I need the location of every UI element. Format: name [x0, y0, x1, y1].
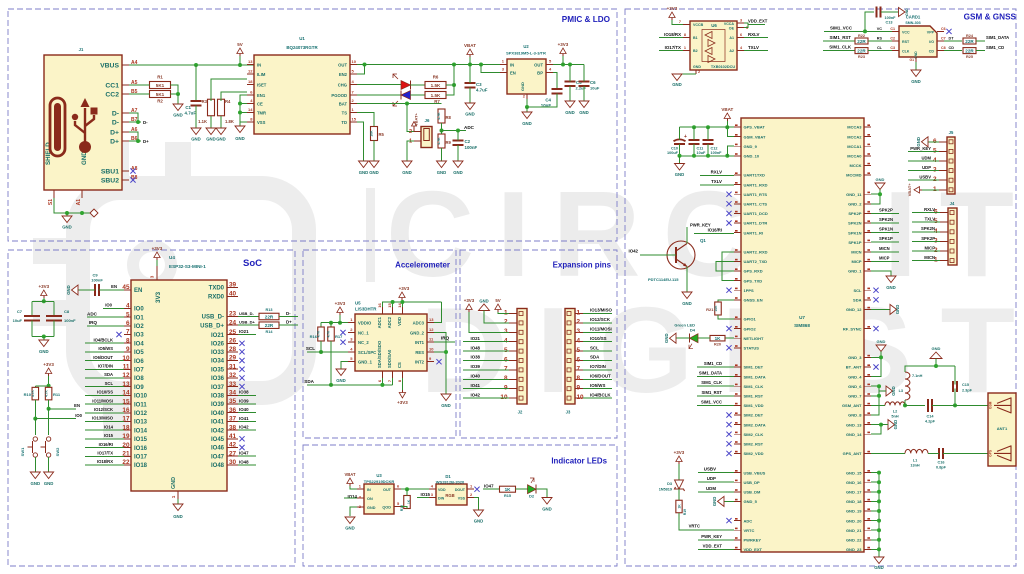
- svg-text:GND: GND: [895, 305, 900, 315]
- svg-text:U5: U5: [355, 301, 361, 306]
- GSM module U7 SIM868: [741, 118, 864, 552]
- wire VBAT to GSM_VBAT: [727, 121, 734, 137]
- diode D3 1N5819: [659, 480, 685, 492]
- net label VC: [877, 27, 883, 31]
- ground: [675, 164, 685, 178]
- svg-text:GND_11: GND_11: [846, 192, 862, 197]
- switch SW1: [20, 437, 38, 457]
- svg-text:IO42: IO42: [628, 249, 638, 254]
- resistor R16: [310, 327, 325, 341]
- net label MICP at J4: [925, 245, 936, 250]
- svg-text:+: +: [684, 134, 687, 140]
- junction: [879, 355, 883, 359]
- no-connect: [873, 326, 878, 331]
- no-connect: [239, 367, 244, 372]
- svg-text:9: 9: [504, 385, 508, 392]
- svg-text:22R: 22R: [857, 49, 866, 54]
- wire GSM_ANT: [871, 404, 885, 406]
- LED D4 green: [674, 322, 698, 348]
- svg-text:1.1K: 1.1K: [198, 119, 207, 124]
- J1 bottom pins S1 A1: [48, 190, 82, 205]
- svg-text:100nF: 100nF: [91, 278, 103, 283]
- svg-text:SCL: SCL: [854, 288, 863, 293]
- svg-text:ADC: ADC: [744, 518, 753, 523]
- svg-text:USB_DP: USB_DP: [744, 480, 761, 485]
- svg-text:4: 4: [504, 338, 508, 345]
- svg-text:GND: GND: [891, 386, 896, 396]
- net label IO10/SS at U4: [97, 390, 113, 395]
- resistor R19: [676, 500, 687, 515]
- wire 3v3 to D3: [678, 464, 680, 480]
- net label IO47: [239, 451, 249, 456]
- svg-text:C8: C8: [941, 46, 946, 50]
- svg-text:R13: R13: [266, 308, 273, 312]
- svg-text:SIM2_DATA: SIM2_DATA: [744, 422, 766, 427]
- wire: [912, 231, 940, 233]
- svg-text:SW1: SW1: [20, 447, 25, 456]
- wire: [411, 94, 426, 96]
- junction: [136, 139, 140, 143]
- net label IO17/TX: [665, 45, 681, 50]
- wire: [469, 57, 471, 65]
- svg-text:IO17: IO17: [134, 455, 148, 461]
- svg-text:IO21: IO21: [239, 329, 249, 334]
- load switch U3 TPS22919DCKR: [357, 473, 401, 514]
- svg-text:ESP32-S3-MINI-1: ESP32-S3-MINI-1: [169, 264, 206, 269]
- svg-text:IO41: IO41: [211, 420, 225, 426]
- wire: [698, 539, 734, 541]
- svg-text:5K1: 5K1: [156, 83, 165, 88]
- svg-text:D+: D+: [110, 138, 119, 145]
- mounting diamond: [90, 209, 98, 217]
- no-connect: [239, 436, 244, 441]
- svg-text:EN: EN: [111, 284, 117, 289]
- svg-text:R17: R17: [335, 334, 343, 339]
- wire: [583, 86, 585, 101]
- wire R17 to SDA: [330, 341, 332, 385]
- wire Q1 emitter: [686, 267, 688, 293]
- wire: [171, 85, 179, 94]
- wire: [401, 378, 403, 390]
- net label IO10/SS at J3: [590, 336, 607, 341]
- ground: [336, 369, 346, 383]
- ground: [44, 472, 54, 486]
- svg-text:VBUS: VBUS: [100, 62, 119, 69]
- svg-text:GND: GND: [437, 170, 447, 175]
- resistor R17: [327, 327, 343, 341]
- no-connect: [726, 288, 731, 293]
- net label USBV at J5: [919, 175, 931, 180]
- svg-text:TXLV: TXLV: [711, 179, 722, 184]
- svg-text:GND_9: GND_9: [744, 144, 758, 149]
- svg-text:3: 3: [150, 275, 155, 278]
- net label ADC: [464, 125, 475, 130]
- net label UDP: [707, 476, 716, 481]
- resistor R5: [370, 127, 385, 141]
- junction: [238, 102, 242, 106]
- wire EN1-VSS tie: [240, 95, 247, 122]
- svg-text:NC_1: NC_1: [358, 330, 369, 335]
- net label IO6/DOUT at J3: [590, 374, 611, 379]
- wire U6 gnd: [677, 73, 696, 75]
- svg-text:IO2: IO2: [134, 324, 144, 330]
- wire C13: [865, 12, 874, 31]
- svg-text:MICP: MICP: [852, 259, 862, 264]
- svg-text:GND: GND: [712, 497, 717, 507]
- net label EN at C9: [111, 284, 117, 289]
- ground: [30, 472, 40, 486]
- svg-text:Indicator LEDs: Indicator LEDs: [551, 457, 607, 466]
- junction: [338, 321, 342, 325]
- wire R6R7 to VBAT: [446, 65, 454, 96]
- wire EN to SW2: [49, 408, 76, 410]
- no-connect: [116, 332, 121, 337]
- svg-text:UART1_RTS: UART1_RTS: [744, 192, 768, 197]
- wire: [85, 368, 124, 370]
- svg-text:13nH: 13nH: [910, 463, 920, 467]
- no-connect: [239, 445, 244, 450]
- svg-text:B1: B1: [693, 36, 698, 40]
- wire: [697, 404, 734, 406]
- svg-text:IO38: IO38: [211, 394, 225, 400]
- ground: [474, 510, 484, 524]
- no-connect: [726, 412, 731, 417]
- svg-text:C4: C4: [545, 98, 551, 103]
- svg-text:ISET: ISET: [257, 82, 267, 87]
- svg-text:GND: GND: [905, 8, 909, 16]
- svg-text:GND: GND: [62, 225, 72, 230]
- svg-text:R19: R19: [683, 509, 687, 515]
- svg-text:J6: J6: [425, 118, 430, 123]
- wire EN2: [357, 65, 365, 75]
- net label IO7/DIN at J3: [590, 364, 606, 369]
- svg-text:MCCMD: MCCMD: [846, 173, 861, 178]
- svg-text:6: 6: [504, 356, 508, 363]
- wire: [240, 112, 247, 114]
- junction: [238, 111, 242, 115]
- wire: [912, 240, 940, 242]
- svg-text:4.7K: 4.7K: [317, 330, 321, 337]
- wire: [583, 350, 612, 352]
- wire: [744, 37, 768, 39]
- svg-text:IO13/MISO: IO13/MISO: [92, 416, 114, 421]
- svg-text:VCC: VCC: [902, 30, 910, 34]
- svg-text:IO10/SS: IO10/SS: [97, 390, 113, 395]
- svg-text:GND_14: GND_14: [846, 432, 862, 437]
- svg-text:10uF: 10uF: [13, 318, 23, 323]
- svg-text:A2: A2: [729, 49, 734, 53]
- wire c7c8 top rail: [32, 300, 54, 302]
- power +3V3: [38, 284, 49, 298]
- wire: [85, 438, 124, 440]
- wire: [943, 452, 988, 454]
- svg-text:IO40: IO40: [211, 411, 225, 417]
- svg-text:23: 23: [229, 311, 237, 318]
- svg-text:ANT1: ANT1: [997, 426, 1008, 431]
- net label IO41 at J2: [470, 383, 480, 388]
- svg-text:1.5K: 1.5K: [431, 93, 441, 98]
- wire: [678, 489, 680, 500]
- svg-text:GND_22: GND_22: [846, 538, 862, 543]
- net label IO0 at SW1: [75, 413, 82, 418]
- connector J2: [500, 309, 527, 415]
- section title PMIC & LDO: [562, 15, 611, 24]
- svg-text:GSM: GSM: [989, 401, 993, 409]
- net label VRTC: [689, 524, 700, 529]
- wire: [583, 369, 612, 371]
- junction: [42, 299, 46, 303]
- resistor R15: [500, 486, 516, 498]
- wire: [210, 116, 212, 128]
- net label USBV: [704, 467, 716, 472]
- svg-text:IO15: IO15: [134, 437, 148, 443]
- svg-text:IO7/DIN: IO7/DIN: [590, 364, 606, 369]
- svg-text:IO18/RX: IO18/RX: [664, 32, 681, 37]
- svg-text:DT: DT: [949, 37, 955, 41]
- svg-text:SIM1_VCC: SIM1_VCC: [701, 399, 722, 404]
- svg-text:GND: GND: [874, 565, 884, 570]
- wire SDA: [307, 384, 393, 386]
- junction: [444, 350, 448, 354]
- svg-text:IO47: IO47: [484, 483, 494, 488]
- svg-text:100nF: 100nF: [64, 318, 76, 323]
- no-connect: [726, 422, 731, 427]
- net label IO21: [239, 329, 249, 334]
- svg-text:5V: 5V: [495, 298, 500, 303]
- wire: [698, 491, 734, 493]
- junction: [405, 102, 409, 106]
- svg-text:15: 15: [352, 117, 357, 122]
- svg-text:C3: C3: [476, 82, 482, 87]
- svg-text:RF_SYNC: RF_SYNC: [843, 326, 862, 331]
- wire: [238, 394, 256, 396]
- net label IO18/RX: [664, 32, 681, 37]
- section title SoC: [243, 258, 262, 269]
- junction: [561, 63, 565, 67]
- wire OUT rail: [357, 64, 500, 66]
- wire: [43, 298, 45, 301]
- svg-text:IO6/DOUT: IO6/DOUT: [590, 374, 611, 379]
- svg-text:SIM1_CLK: SIM1_CLK: [829, 45, 852, 50]
- svg-text:SPK1P: SPK1P: [879, 236, 893, 241]
- net label ADC row: [87, 311, 98, 316]
- wire: [330, 323, 332, 327]
- net label IO42 at J2: [470, 392, 480, 397]
- wire: [526, 99, 528, 107]
- svg-text:MICN: MICN: [879, 246, 890, 251]
- section border Indicator LEDs: [303, 445, 617, 566]
- wire GND_3 GND_4: [871, 357, 881, 376]
- wire U6 vccb: [672, 20, 683, 24]
- ground: [66, 285, 78, 295]
- wire: [78, 289, 95, 291]
- ground: [39, 340, 49, 354]
- no-connect: [436, 359, 441, 364]
- wire: [928, 452, 939, 454]
- wire: [583, 65, 585, 82]
- svg-text:LIS3DHTR: LIS3DHTR: [355, 307, 377, 312]
- svg-text:GND: GND: [877, 339, 886, 344]
- svg-text:USBV: USBV: [919, 175, 931, 180]
- net label VDD_EXT: [748, 18, 768, 23]
- svg-text:SPX3819M5-L-3-3/TR: SPX3819M5-L-3-3/TR: [506, 51, 546, 56]
- wire: [463, 341, 509, 343]
- svg-text:GND: GND: [932, 346, 941, 351]
- svg-text:VBAT: VBAT: [344, 472, 356, 477]
- wire: [85, 386, 124, 388]
- no-connect: [726, 518, 731, 523]
- svg-text:IO12: IO12: [134, 411, 148, 417]
- wire: [724, 500, 734, 502]
- svg-text:SIM1_DET: SIM1_DET: [744, 365, 764, 370]
- junction: [568, 63, 572, 67]
- svg-text:CC2: CC2: [105, 91, 119, 98]
- junction: [468, 63, 472, 67]
- svg-text:4: 4: [126, 303, 130, 310]
- wire: [868, 40, 892, 42]
- wire R12 to QOD: [401, 507, 407, 509]
- U7 left pins: [734, 124, 768, 552]
- ground: [402, 161, 412, 175]
- net label IO4/BCLK at J3: [590, 392, 611, 397]
- net label D-: [143, 120, 148, 125]
- junction: [136, 120, 140, 124]
- wire: [569, 65, 571, 82]
- net label SPK1N at U7: [879, 227, 893, 232]
- svg-text:39: 39: [229, 282, 237, 289]
- wire: [463, 397, 509, 399]
- junction: [725, 125, 729, 129]
- svg-text:UART2_TXD: UART2_TXD: [744, 259, 768, 264]
- svg-text:Expansion pins: Expansion pins: [553, 261, 612, 270]
- svg-text:ADC3: ADC3: [413, 321, 425, 326]
- svg-text:MICP: MICP: [925, 245, 936, 250]
- net label RXLV at U7: [711, 170, 722, 175]
- svg-text:CD: CD: [929, 50, 935, 54]
- junction: [452, 83, 456, 87]
- junction: [725, 154, 729, 158]
- svg-text:IO48: IO48: [239, 459, 249, 464]
- junction: [329, 321, 333, 325]
- ground: [206, 128, 216, 142]
- capacitor C1: [185, 101, 202, 116]
- svg-text:IO41: IO41: [239, 416, 249, 421]
- wire: [976, 40, 985, 42]
- svg-text:GND_3: GND_3: [848, 355, 862, 360]
- resistor R10: [24, 387, 39, 400]
- USB icon inside J1: [50, 98, 98, 156]
- svg-text:IO39: IO39: [211, 402, 225, 408]
- no-connect: [726, 326, 731, 331]
- svg-text:IO4/BCLK: IO4/BCLK: [590, 392, 611, 397]
- svg-text:GND: GND: [479, 299, 488, 304]
- svg-text:4.7K: 4.7K: [327, 330, 331, 337]
- wire: [693, 144, 695, 156]
- wire: [824, 30, 892, 32]
- svg-text:IO33: IO33: [211, 350, 225, 356]
- net label IO6/DOUT at U4: [93, 355, 113, 360]
- svg-text:IO8: IO8: [134, 376, 144, 382]
- wire: [34, 386, 36, 388]
- svg-text:OUT: OUT: [383, 488, 392, 492]
- svg-text:A8: A8: [131, 166, 138, 172]
- svg-text:IO4: IO4: [134, 341, 144, 347]
- power +3V3: [464, 298, 475, 312]
- svg-text:BP: BP: [537, 71, 543, 76]
- wire ADC3 to 3v3: [434, 302, 441, 323]
- svg-text:TXD0: TXD0: [209, 286, 225, 292]
- svg-text:GND_15: GND_15: [846, 470, 862, 475]
- wire: [583, 341, 612, 343]
- svg-text:8: 8: [126, 337, 130, 344]
- wire ADC: [442, 130, 467, 132]
- svg-text:6: 6: [740, 33, 742, 37]
- svg-text:UDM: UDM: [921, 155, 931, 160]
- svg-text:R11: R11: [53, 392, 61, 397]
- wire Q1 collector: [686, 227, 688, 244]
- wire: [339, 315, 341, 323]
- section border SoC: [8, 250, 295, 566]
- junction: [194, 63, 198, 67]
- svg-text:SCL: SCL: [105, 381, 114, 386]
- wire: [697, 366, 734, 368]
- svg-text:R2: R2: [157, 99, 163, 104]
- net label MICN at J4: [924, 255, 935, 260]
- svg-text:GND_4: GND_4: [848, 374, 862, 379]
- ground above GND_11/GND_2: [875, 177, 885, 194]
- svg-text:R24: R24: [966, 34, 974, 38]
- no-connect: [726, 345, 731, 350]
- net label IO12/SCK at J3: [590, 317, 611, 322]
- svg-text:+3V3: +3V3: [38, 284, 49, 289]
- wire: [411, 84, 426, 86]
- svg-text:IO7: IO7: [134, 368, 144, 374]
- net label IO48: [239, 459, 249, 464]
- svg-text:INT2: INT2: [415, 360, 425, 365]
- svg-text:+3V3: +3V3: [43, 362, 54, 367]
- svg-text:GPIO2: GPIO2: [744, 326, 757, 331]
- junction: [877, 384, 881, 388]
- wire GND_2 RES: [434, 333, 446, 395]
- net label D- at R13: [286, 311, 291, 316]
- level shifter U6 TXB0102DCU: [679, 19, 748, 74]
- svg-text:R14: R14: [266, 330, 274, 334]
- svg-text:IO45: IO45: [211, 437, 225, 443]
- svg-text:10: 10: [500, 394, 508, 401]
- wire: [177, 94, 179, 104]
- net label IO42: [628, 249, 638, 254]
- svg-text:IO46: IO46: [211, 446, 225, 452]
- svg-text:7.1nH: 7.1nH: [912, 374, 923, 378]
- svg-text:R4: R4: [225, 99, 231, 104]
- svg-text:OUT: OUT: [338, 62, 347, 67]
- no-connect: [239, 341, 244, 346]
- svg-text:CE: CE: [257, 101, 263, 106]
- no-connect: [340, 340, 345, 345]
- svg-text:IO10/SS: IO10/SS: [590, 336, 607, 341]
- svg-text:SPK1P: SPK1P: [848, 240, 861, 245]
- wire ILIM: [211, 79, 247, 101]
- junction: [405, 487, 409, 491]
- svg-text:26: 26: [229, 338, 237, 345]
- wire: [823, 50, 855, 52]
- no-connect: [726, 192, 731, 197]
- wire: [693, 127, 695, 139]
- no-connect: [726, 201, 731, 206]
- wire: [881, 11, 899, 13]
- svg-text:GPS_RXD: GPS_RXD: [744, 269, 763, 274]
- svg-text:SIM1_RST: SIM1_RST: [702, 390, 723, 395]
